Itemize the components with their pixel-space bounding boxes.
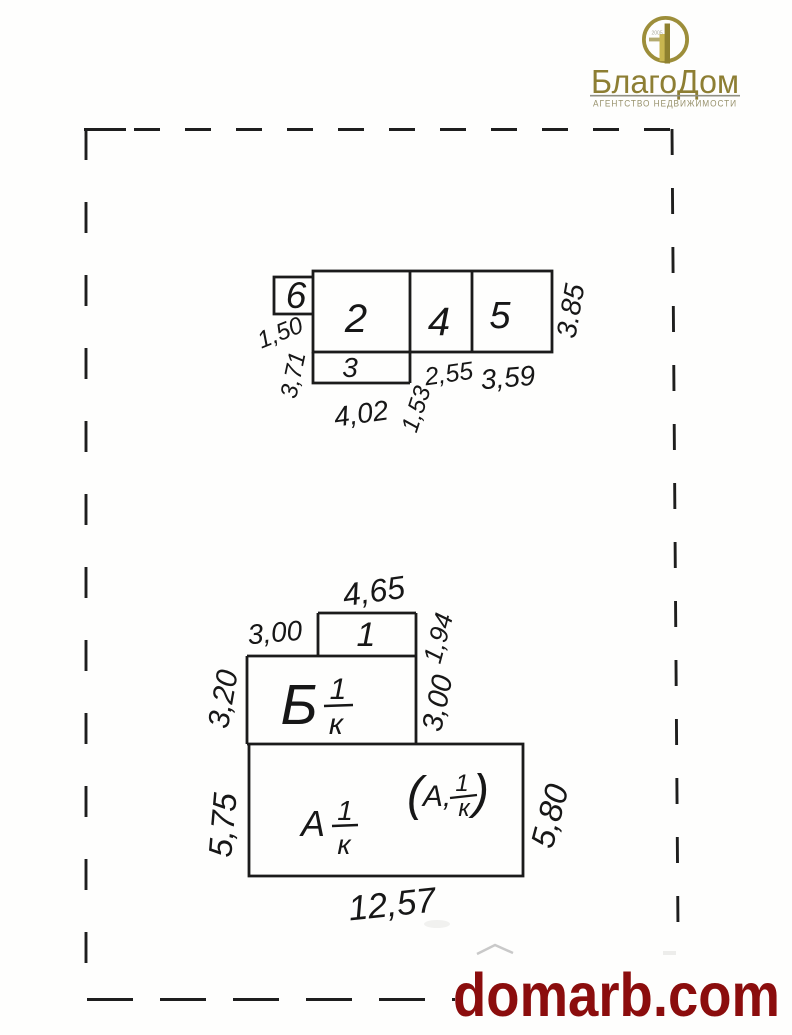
svg-text:12,57: 12,57: [346, 880, 439, 928]
svg-text:1: 1: [330, 673, 347, 706]
svg-text:4: 4: [428, 300, 450, 344]
svg-text:2: 2: [344, 297, 367, 341]
svg-text:к: к: [329, 708, 345, 741]
svg-text:3,20: 3,20: [202, 667, 245, 731]
svg-text:АГЕНТСТВО НЕДВИЖИМОСТИ: АГЕНТСТВО НЕДВИЖИМОСТИ: [593, 99, 737, 109]
svg-text:3,71: 3,71: [275, 349, 311, 400]
svg-text:6: 6: [286, 275, 307, 316]
svg-text:3: 3: [342, 352, 358, 383]
svg-text:4,02: 4,02: [332, 394, 391, 432]
svg-text:1: 1: [455, 770, 468, 797]
svg-text:5: 5: [489, 295, 511, 337]
svg-text:3,59: 3,59: [479, 360, 536, 396]
svg-text:к: к: [337, 829, 352, 860]
svg-text:2005: 2005: [652, 31, 663, 37]
svg-text:1,50: 1,50: [253, 312, 307, 355]
svg-text:5,75: 5,75: [201, 791, 244, 859]
svg-text:А,: А,: [421, 780, 451, 813]
svg-text:2,55: 2,55: [422, 357, 475, 392]
svg-text:Б: Б: [280, 673, 317, 737]
svg-text:5,80: 5,80: [523, 779, 576, 851]
svg-text:1: 1: [337, 795, 353, 826]
svg-text:3.85: 3.85: [551, 281, 591, 340]
svg-text:): ): [468, 766, 489, 819]
svg-text:1,94: 1,94: [417, 610, 459, 667]
svg-text:4,65: 4,65: [340, 569, 407, 613]
svg-text:domarb.com: domarb.com: [453, 961, 780, 1029]
svg-text:1: 1: [357, 616, 376, 654]
svg-text:3,00: 3,00: [246, 615, 303, 651]
svg-text:к: к: [458, 795, 471, 822]
svg-text:А: А: [299, 803, 325, 844]
svg-text:3,00: 3,00: [416, 672, 459, 734]
